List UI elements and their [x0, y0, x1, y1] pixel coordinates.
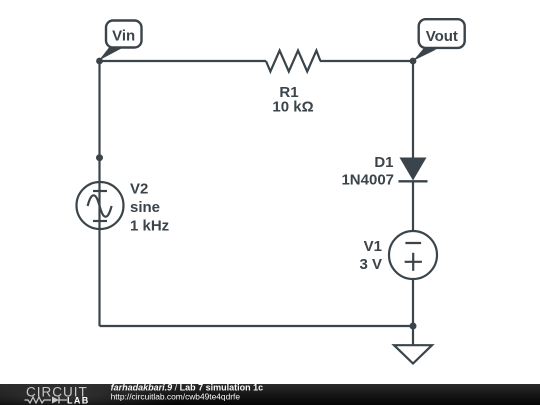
svg-text:Vout: Vout: [426, 28, 458, 45]
wire ground stem: [412, 326, 414, 345]
svg-text:Vin: Vin: [112, 28, 135, 45]
svg-text:V1: V1: [364, 238, 382, 255]
svg-text:3 V: 3 V: [359, 256, 382, 273]
junction dot ground node: [410, 323, 417, 330]
logo diode: [52, 397, 59, 404]
wire left vertical (Vin node down through V2 to bottom): [98, 61, 100, 326]
wire top-left (Vin node to resistor): [100, 60, 267, 62]
svg-text:1N4007: 1N4007: [341, 172, 394, 189]
svg-text:sine: sine: [130, 199, 160, 216]
svg-text:http://circuitlab.com/cwb49te4: http://circuitlab.com/cwb49te4qdrfe: [111, 391, 241, 401]
svg-text:D1: D1: [374, 154, 393, 171]
node flag Vin: [96, 21, 141, 65]
svg-text:LAB: LAB: [67, 395, 90, 405]
svg-text:V2: V2: [130, 181, 148, 198]
source V1: [389, 231, 437, 279]
wire right vertical upper (Vout node to diode): [412, 61, 414, 158]
svg-text:10 kΩ: 10 kΩ: [272, 99, 313, 116]
ground symbol: [394, 345, 432, 363]
wire bottom horizontal: [100, 325, 414, 327]
junction dot on left wire: [96, 154, 103, 161]
source V2 (sine): [77, 182, 124, 229]
wire top-right (resistor to Vout node): [320, 60, 413, 62]
node flag Vout: [410, 19, 465, 64]
svg-text:1 kHz: 1 kHz: [130, 217, 169, 234]
diode D1: [399, 158, 428, 182]
wire V1 to ground junction: [412, 279, 414, 326]
wire diode to V1: [412, 181, 414, 231]
logo resistor zigzag: [25, 397, 52, 403]
resistor R1: [266, 51, 320, 72]
